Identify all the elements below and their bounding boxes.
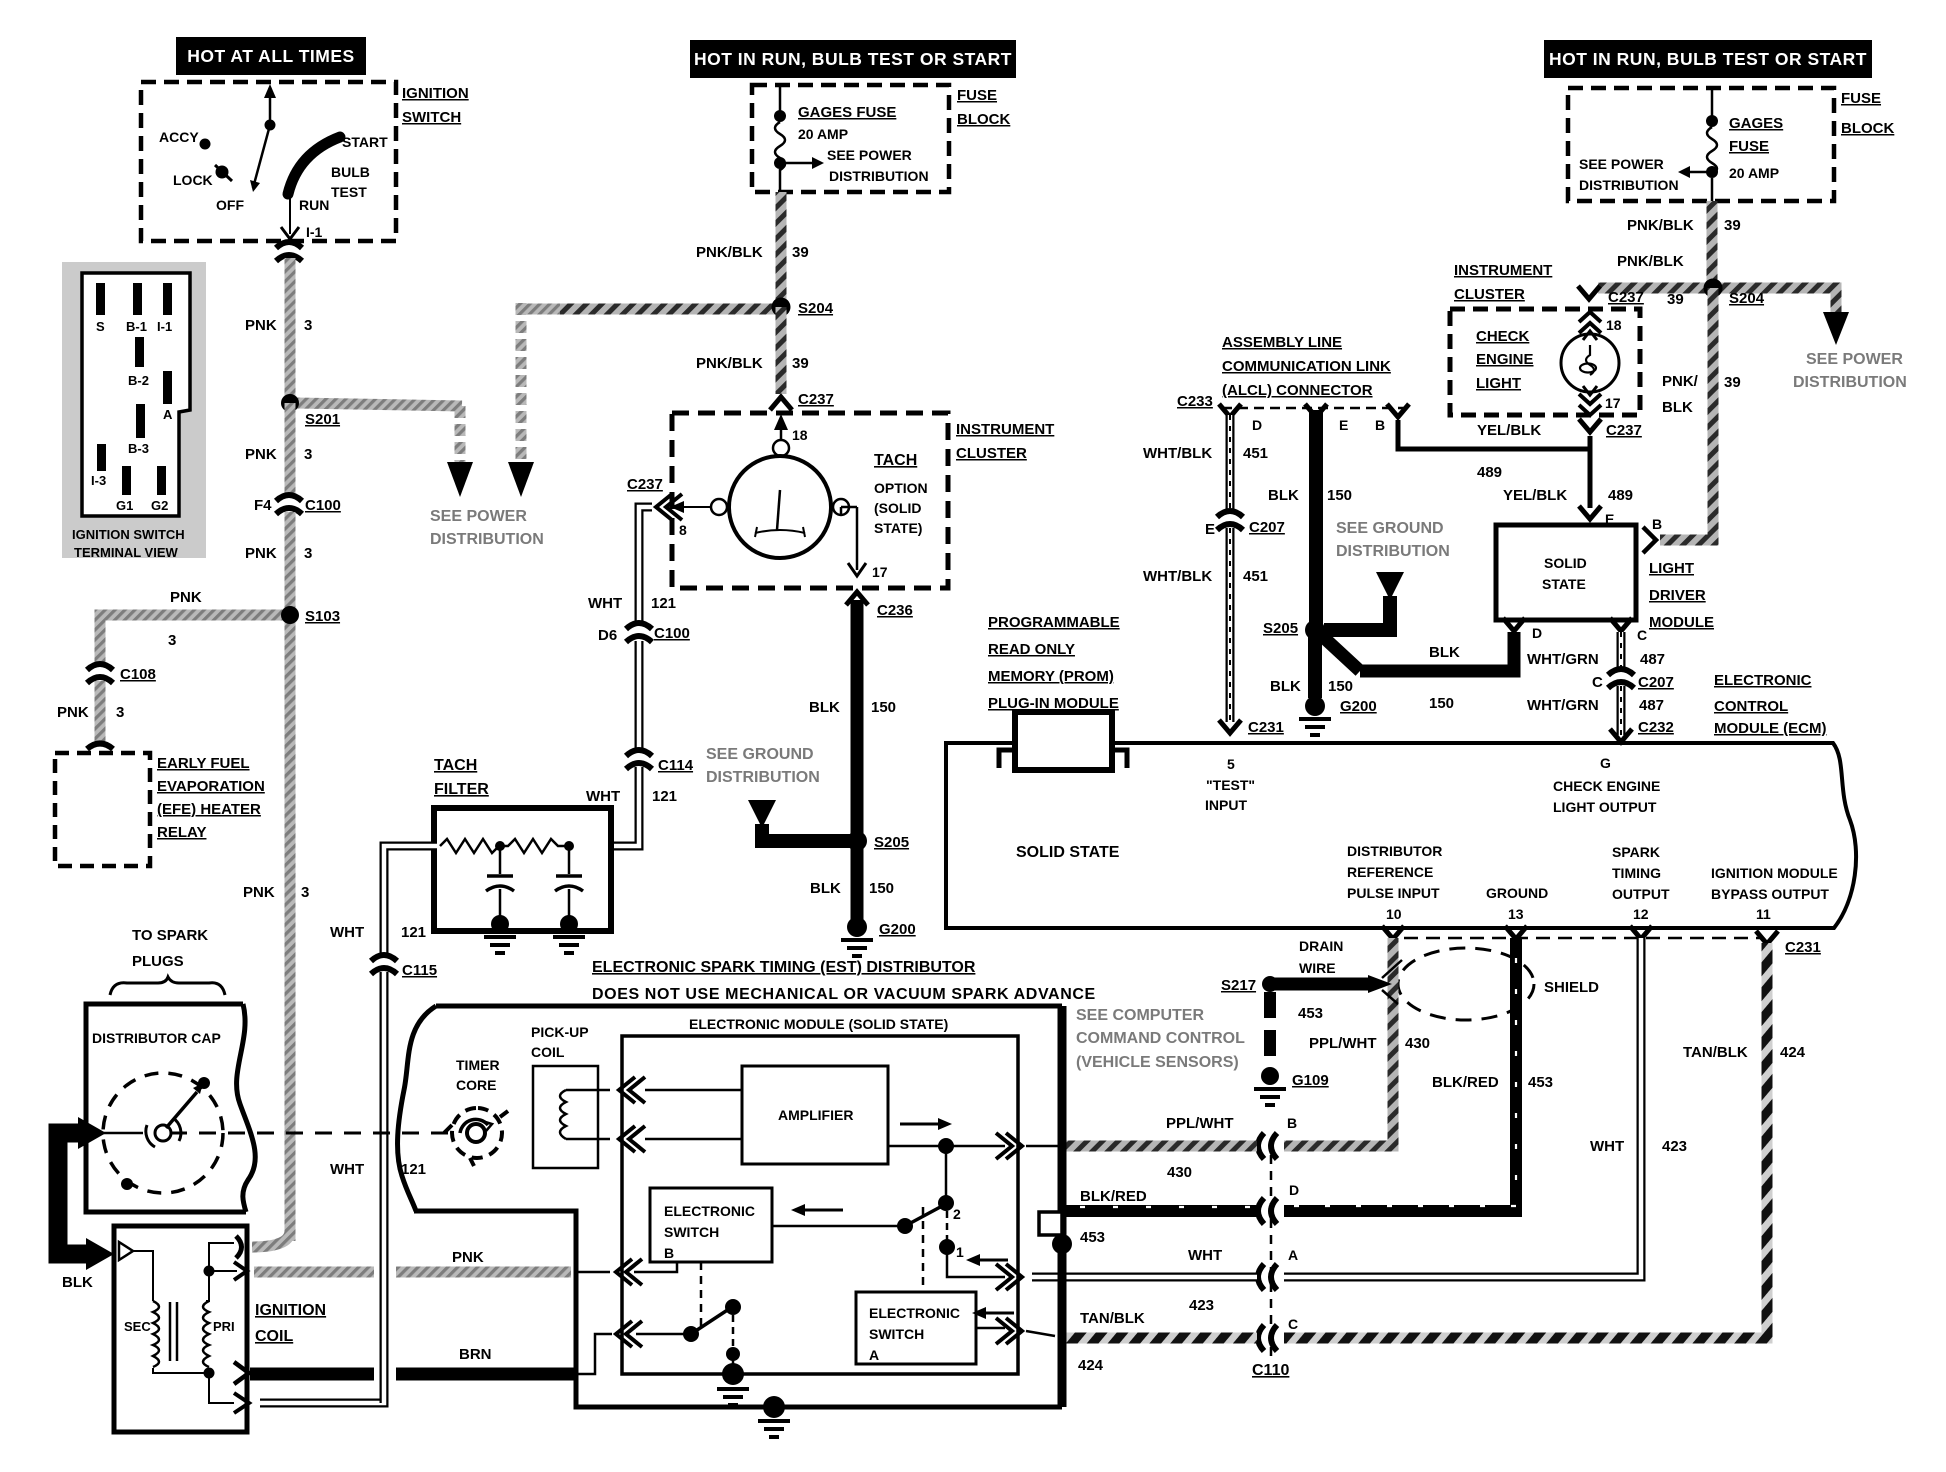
svg-text:1: 1 xyxy=(956,1244,964,1260)
svg-text:3: 3 xyxy=(301,884,309,901)
svg-text:(SOLID: (SOLID xyxy=(874,500,921,516)
ground G200 (right) xyxy=(1305,696,1325,716)
svg-text:DISTRIBUTION: DISTRIBUTION xyxy=(1793,374,1907,391)
svg-text:S204: S204 xyxy=(798,300,834,317)
timer core xyxy=(444,1057,508,1166)
svg-text:SEC: SEC xyxy=(124,1319,151,1334)
svg-text:BLK: BLK xyxy=(1662,399,1693,416)
svg-text:RELAY: RELAY xyxy=(157,824,206,841)
ground G109 xyxy=(1261,1067,1279,1085)
wire S204 branch to see power distribution xyxy=(520,304,560,315)
ECM pin 11 connector C231 xyxy=(1756,931,1778,944)
svg-text:18: 18 xyxy=(792,427,808,443)
svg-text:DISTRIBUTION: DISTRIBUTION xyxy=(430,531,544,548)
svg-text:MODULE: MODULE xyxy=(1649,614,1714,631)
dashed control link to switch A xyxy=(922,1207,925,1292)
svg-text:ELECTRONIC MODULE (SOLID STATE: ELECTRONIC MODULE (SOLID STATE) xyxy=(689,1016,948,1032)
svg-text:C100: C100 xyxy=(654,625,690,642)
ECM label xyxy=(1714,672,1827,737)
svg-text:C237: C237 xyxy=(798,391,834,408)
svg-text:DISTRIBUTION: DISTRIBUTION xyxy=(1579,177,1679,193)
svg-text:C: C xyxy=(1592,674,1603,691)
svg-text:G2: G2 xyxy=(151,498,168,513)
PROM plug-in module xyxy=(988,614,1127,770)
svg-text:20 AMP: 20 AMP xyxy=(1729,165,1779,181)
wire to amplifier top xyxy=(645,1089,742,1092)
ALCL pin D xyxy=(1219,404,1241,417)
wire PNK chevron to switch B xyxy=(634,1262,677,1272)
node S205 xyxy=(847,831,867,851)
wire BLK 150 ALCL pin E down xyxy=(1309,410,1323,624)
svg-text:18: 18 xyxy=(1606,317,1622,333)
ECM pin 13 ground xyxy=(1486,885,1548,922)
svg-text:COMMUNICATION LINK: COMMUNICATION LINK xyxy=(1222,358,1391,375)
svg-text:WHT: WHT xyxy=(330,924,364,941)
fuse block (middle) xyxy=(752,85,1010,192)
ALCL labels xyxy=(1177,334,1391,410)
svg-text:DISTRIBUTION: DISTRIBUTION xyxy=(706,769,820,786)
wire S204 branch left to C237 xyxy=(1598,283,1713,294)
ignition switch box xyxy=(141,82,469,241)
svg-text:10: 10 xyxy=(1386,906,1402,922)
electronic switch A xyxy=(856,1292,976,1364)
wire BRN coil to module xyxy=(250,1334,612,1374)
svg-text:C231: C231 xyxy=(1248,719,1284,736)
wire WHT 121 C100 to C114 xyxy=(586,641,677,805)
svg-text:E: E xyxy=(1339,417,1348,433)
see computer command control xyxy=(1076,1007,1245,1071)
svg-text:150: 150 xyxy=(1327,487,1352,504)
svg-text:451: 451 xyxy=(1243,445,1268,462)
electronic switch B xyxy=(650,1188,772,1262)
svg-text:PNK: PNK xyxy=(452,1249,484,1266)
fuse block (right) xyxy=(1568,88,1894,201)
svg-text:IGNITION SWITCH: IGNITION SWITCH xyxy=(72,527,185,542)
shield dashed boundary under ECM xyxy=(1404,937,1760,940)
wire PNK coil to module xyxy=(254,1249,610,1272)
svg-text:WHT: WHT xyxy=(1590,1138,1624,1155)
connector C232 into ECM xyxy=(1610,729,1632,742)
svg-text:STATE: STATE xyxy=(1542,576,1586,592)
EST distributor title xyxy=(592,959,1096,1003)
svg-text:SEE POWER: SEE POWER xyxy=(1806,351,1903,368)
svg-text:C237: C237 xyxy=(1608,289,1644,306)
switch contact 1 xyxy=(939,1211,964,1260)
svg-text:WHT/BLK: WHT/BLK xyxy=(1143,445,1212,462)
tach pin 17 xyxy=(841,507,888,580)
svg-text:D: D xyxy=(1289,1182,1299,1198)
C110 pin A xyxy=(1258,1264,1277,1290)
svg-text:PICK-UP: PICK-UP xyxy=(531,1024,589,1040)
ALCL connector dashed top xyxy=(1222,407,1406,410)
svg-text:FUSE: FUSE xyxy=(1729,138,1769,155)
svg-text:WHT/BLK: WHT/BLK xyxy=(1143,568,1212,585)
svg-text:WIRE: WIRE xyxy=(1299,960,1336,976)
wire BLK 150 pin D to S205 xyxy=(1360,632,1514,671)
svg-text:487: 487 xyxy=(1640,651,1665,668)
svg-text:STATE): STATE) xyxy=(874,520,922,536)
svg-text:PNK: PNK xyxy=(170,589,202,606)
svg-text:DRAIN: DRAIN xyxy=(1299,938,1343,954)
svg-text:BLK: BLK xyxy=(1429,644,1460,661)
svg-text:TACH: TACH xyxy=(434,757,477,774)
pin C of light driver module xyxy=(1610,618,1632,631)
svg-text:FILTER: FILTER xyxy=(434,781,489,798)
ECM pin 13 connector xyxy=(1505,926,1527,939)
pin D of light driver module xyxy=(1503,618,1525,631)
svg-text:C: C xyxy=(1288,1316,1298,1332)
svg-text:SHIELD: SHIELD xyxy=(1544,979,1599,996)
svg-text:TIMING: TIMING xyxy=(1612,865,1661,881)
wire WHT C115 to ignition coil xyxy=(260,972,426,1403)
svg-text:EVAPORATION: EVAPORATION xyxy=(157,778,265,795)
svg-text:453: 453 xyxy=(1080,1229,1105,1246)
svg-text:GAGES FUSE: GAGES FUSE xyxy=(798,104,896,121)
electronic module inner box xyxy=(622,1016,1018,1374)
svg-text:PNK: PNK xyxy=(245,317,277,334)
wire BLK/RED 453 pin 13 down and left xyxy=(1284,938,1516,1211)
svg-text:5: 5 xyxy=(1227,756,1235,772)
svg-text:G200: G200 xyxy=(1340,698,1377,715)
module output chevrons TAN/BLK row xyxy=(996,1318,1022,1344)
ignition switch contacts xyxy=(159,84,388,240)
svg-text:B-2: B-2 xyxy=(128,373,149,388)
svg-text:PNK: PNK xyxy=(245,446,277,463)
node S205 (right) xyxy=(1305,620,1325,640)
svg-text:453: 453 xyxy=(1298,1005,1323,1022)
resistor xyxy=(440,839,500,853)
svg-text:430: 430 xyxy=(1167,1164,1192,1181)
linkage dashed line cap to timer core xyxy=(170,1132,448,1135)
svg-text:3: 3 xyxy=(168,632,176,649)
ECM pin 10 connector xyxy=(1382,926,1404,939)
svg-text:13: 13 xyxy=(1508,906,1524,922)
svg-text:DISTRIBUTION: DISTRIBUTION xyxy=(1336,543,1450,560)
svg-text:I-3: I-3 xyxy=(91,473,106,488)
wire PNK 3 S103 down to ignition coil xyxy=(285,615,296,1241)
svg-text:ELECTRONIC: ELECTRONIC xyxy=(869,1305,960,1321)
gages fuse 20A (middle) xyxy=(774,85,929,192)
svg-text:39: 39 xyxy=(792,355,809,372)
dashed control link switch B xyxy=(700,1262,703,1330)
svg-text:3: 3 xyxy=(304,545,312,562)
svg-text:121: 121 xyxy=(401,924,426,941)
ECM pin 10 distributor reference pulse input xyxy=(1347,843,1442,922)
svg-text:39: 39 xyxy=(1724,374,1741,391)
svg-text:BLK: BLK xyxy=(62,1274,93,1291)
svg-text:BRN: BRN xyxy=(459,1346,492,1363)
svg-text:WHT: WHT xyxy=(586,788,620,805)
svg-text:C233: C233 xyxy=(1177,393,1213,410)
svg-text:DOES NOT USE MECHANICAL OR VAC: DOES NOT USE MECHANICAL OR VACUUM SPARK … xyxy=(592,986,1096,1003)
svg-text:17: 17 xyxy=(1605,395,1621,411)
svg-text:TIMER: TIMER xyxy=(456,1057,500,1073)
svg-text:C110: C110 xyxy=(1252,1362,1289,1379)
wire PNK/BLK 39 S204 down to light driver module pin B xyxy=(1660,288,1713,540)
svg-text:C237: C237 xyxy=(627,476,663,493)
wire BLK/RED 453 to distributor xyxy=(1062,1205,1257,1217)
C110 pin C xyxy=(1258,1325,1277,1351)
svg-text:BLK: BLK xyxy=(1270,678,1301,695)
svg-text:LOCK: LOCK xyxy=(173,172,213,188)
connector C108 xyxy=(87,664,113,683)
svg-text:ELECTRONIC: ELECTRONIC xyxy=(664,1203,755,1219)
svg-text:ELECTRONIC SPARK TIMING (EST): ELECTRONIC SPARK TIMING (EST) DISTRIBUTO… xyxy=(592,959,976,976)
svg-text:DISTRIBUTION: DISTRIBUTION xyxy=(829,168,929,184)
wire WHT 423 pin 12 down and left xyxy=(1284,938,1687,1277)
svg-text:CLUSTER: CLUSTER xyxy=(956,445,1027,462)
svg-text:OFF: OFF xyxy=(216,197,244,213)
svg-text:IGNITION: IGNITION xyxy=(255,1302,326,1319)
wire WHT filter to C115 xyxy=(330,846,437,956)
svg-text:424: 424 xyxy=(1078,1357,1104,1374)
wire TAN/BLK 424 to distributor xyxy=(1062,1333,1257,1344)
wire BLK 150 C236 to S205 xyxy=(851,600,864,836)
ECM pin 12 connector xyxy=(1630,926,1652,939)
svg-text:OPTION: OPTION xyxy=(874,480,928,496)
svg-text:C237: C237 xyxy=(1606,422,1642,439)
svg-text:C108: C108 xyxy=(120,666,156,683)
svg-text:451: 451 xyxy=(1243,568,1268,585)
svg-text:SOLID STATE: SOLID STATE xyxy=(1016,844,1120,861)
svg-text:LIGHT OUTPUT: LIGHT OUTPUT xyxy=(1553,799,1657,815)
wire PNK 3 S103 branch left xyxy=(100,615,290,666)
svg-text:(VEHICLE SENSORS): (VEHICLE SENSORS) xyxy=(1076,1054,1239,1071)
svg-text:423: 423 xyxy=(1662,1138,1687,1155)
svg-text:B: B xyxy=(664,1245,674,1261)
connector C237 below bulb xyxy=(1579,419,1601,432)
see ground distribution (right) xyxy=(1324,520,1450,630)
svg-text:EARLY FUEL: EARLY FUEL xyxy=(157,755,250,772)
node S201 xyxy=(281,394,299,412)
svg-text:S204: S204 xyxy=(1729,290,1765,307)
svg-text:D6: D6 xyxy=(598,627,617,644)
svg-text:12: 12 xyxy=(1633,906,1649,922)
svg-text:150: 150 xyxy=(871,699,896,716)
svg-text:PROGRAMMABLE: PROGRAMMABLE xyxy=(988,614,1120,631)
svg-text:150: 150 xyxy=(1328,678,1353,695)
ignition switch terminal view xyxy=(62,262,206,560)
lower switch xyxy=(636,1299,741,1370)
svg-text:BLK: BLK xyxy=(1268,487,1299,504)
svg-text:SEE POWER: SEE POWER xyxy=(1579,156,1664,172)
svg-text:INPUT: INPUT xyxy=(1205,797,1247,813)
wire BLK 150 S205 to G200 xyxy=(851,841,864,920)
svg-text:G: G xyxy=(1600,755,1611,771)
svg-text:CORE: CORE xyxy=(456,1077,496,1093)
svg-text:TEST: TEST xyxy=(331,184,367,200)
svg-text:HOT IN RUN, BULB TEST OR START: HOT IN RUN, BULB TEST OR START xyxy=(694,49,1012,69)
svg-text:SWITCH: SWITCH xyxy=(869,1326,924,1342)
svg-text:GROUND: GROUND xyxy=(1486,885,1548,901)
svg-text:150: 150 xyxy=(869,880,894,897)
svg-text:S: S xyxy=(96,319,105,334)
svg-text:3: 3 xyxy=(304,446,312,463)
banner HOT AT ALL TIMES xyxy=(176,37,366,75)
svg-text:SWITCH: SWITCH xyxy=(402,109,461,126)
svg-text:ASSEMBLY LINE: ASSEMBLY LINE xyxy=(1222,334,1342,351)
wire PNK/BLK 39 fuse to S204 xyxy=(776,192,787,302)
wire PNK/BLK 39 fuse to S204 right xyxy=(1707,201,1718,282)
svg-text:WHT: WHT xyxy=(330,1161,364,1178)
svg-text:READ ONLY: READ ONLY xyxy=(988,641,1075,658)
connector C100 pin F4 xyxy=(276,495,302,514)
svg-text:TAN/BLK: TAN/BLK xyxy=(1080,1310,1145,1327)
svg-text:HOT AT ALL TIMES: HOT AT ALL TIMES xyxy=(187,46,354,66)
gages fuse 20A (right) xyxy=(1579,88,1783,201)
wire PNK 3 C108 to EFE relay xyxy=(95,681,106,744)
svg-text:PNK/BLK: PNK/BLK xyxy=(696,244,763,261)
svg-text:2: 2 xyxy=(953,1206,961,1222)
svg-text:B: B xyxy=(1652,516,1662,532)
banner HOT IN RUN, BULB TEST OR START (right) xyxy=(1544,40,1872,78)
svg-text:S103: S103 xyxy=(305,608,340,625)
svg-text:20 AMP: 20 AMP xyxy=(798,126,848,142)
svg-text:AMPLIFIER: AMPLIFIER xyxy=(778,1107,853,1123)
shield ellipse xyxy=(1398,948,1534,1020)
wire PNK/BLK 39 S204 to C237 xyxy=(776,307,787,394)
ECM pin 5 test input xyxy=(1205,756,1255,813)
wire WHT 121 redraw over crossings xyxy=(380,1250,389,1403)
svg-text:121: 121 xyxy=(651,595,676,612)
light driver module xyxy=(1496,525,1714,631)
svg-text:ACCY: ACCY xyxy=(159,129,199,145)
svg-text:D: D xyxy=(1252,417,1262,433)
ground G200 xyxy=(847,917,867,937)
svg-text:D: D xyxy=(1532,625,1542,641)
svg-text:CHECK: CHECK xyxy=(1476,328,1530,345)
connector C115 xyxy=(371,955,397,974)
svg-text:PNK: PNK xyxy=(243,884,275,901)
svg-text:YEL/BLK: YEL/BLK xyxy=(1477,422,1541,439)
drain wire S217 xyxy=(1221,938,1402,1066)
svg-text:PRI: PRI xyxy=(213,1319,235,1334)
svg-text:453: 453 xyxy=(1528,1074,1553,1091)
svg-text:C231: C231 xyxy=(1785,939,1821,956)
svg-text:F4: F4 xyxy=(254,497,272,514)
svg-text:DISTRIBUTOR CAP: DISTRIBUTOR CAP xyxy=(92,1030,221,1046)
BLK wire to coil xyxy=(58,1117,114,1291)
svg-text:489: 489 xyxy=(1477,464,1502,481)
svg-text:CONTROL: CONTROL xyxy=(1714,698,1788,715)
ECM pin G check engine light output xyxy=(1553,755,1660,815)
svg-text:OUTPUT: OUTPUT xyxy=(1612,886,1670,902)
svg-text:BLK/RED: BLK/RED xyxy=(1432,1074,1499,1091)
wire PPL/WHT 430 pin 10 down and left xyxy=(1284,938,1393,1146)
svg-text:SPARK: SPARK xyxy=(1612,844,1660,860)
connector below ignition switch xyxy=(276,242,302,261)
svg-text:39: 39 xyxy=(1667,291,1684,308)
amplifier output wire xyxy=(888,1118,1005,1154)
wire PNK 3 ignition switch to S201 xyxy=(285,258,296,401)
pin 18 of bulb xyxy=(1579,312,1622,333)
EFE heater relay xyxy=(55,753,265,866)
svg-text:SEE COMPUTER: SEE COMPUTER xyxy=(1076,1007,1204,1024)
svg-text:START: START xyxy=(342,134,388,150)
wire PNK 3 S201 to C100 xyxy=(285,403,296,498)
connector C231 into ECM test input xyxy=(1219,720,1241,733)
svg-text:G200: G200 xyxy=(879,921,916,938)
wire to amplifier bottom xyxy=(645,1138,742,1141)
wire WHT/GRN 487 pin C to C207 xyxy=(1527,632,1665,672)
svg-text:TO SPARK: TO SPARK xyxy=(132,927,208,944)
instrument cluster (tach) box xyxy=(672,413,1054,588)
svg-text:G1: G1 xyxy=(116,498,133,513)
ECM pin 11 ignition module bypass output xyxy=(1711,865,1838,922)
node S204 right xyxy=(1704,279,1723,298)
ground under right cap xyxy=(553,937,585,953)
distributor outer box xyxy=(398,1006,1062,1407)
svg-text:I-1: I-1 xyxy=(306,224,323,240)
svg-text:TACH: TACH xyxy=(874,452,917,469)
tach filter xyxy=(434,757,611,953)
svg-text:LIGHT: LIGHT xyxy=(1649,560,1694,577)
pin 17 of bulb xyxy=(1579,394,1621,415)
svg-text:BULB: BULB xyxy=(331,164,370,180)
svg-text:TAN/BLK: TAN/BLK xyxy=(1683,1044,1748,1061)
svg-text:S205: S205 xyxy=(1263,620,1298,637)
svg-text:FUSE: FUSE xyxy=(1841,90,1881,107)
svg-text:39: 39 xyxy=(792,244,809,261)
svg-text:C232: C232 xyxy=(1638,719,1674,736)
wire S204 branch right to see power distribution xyxy=(1713,288,1836,312)
svg-text:B: B xyxy=(1375,417,1385,433)
svg-text:PPL/WHT: PPL/WHT xyxy=(1166,1115,1234,1132)
svg-text:COIL: COIL xyxy=(531,1044,565,1060)
amplifier xyxy=(742,1066,888,1164)
wire WHT 423 to distributor xyxy=(1032,1247,1257,1314)
svg-text:PNK/: PNK/ xyxy=(1662,373,1699,390)
svg-text:A: A xyxy=(869,1347,879,1363)
svg-text:MEMORY (PROM): MEMORY (PROM) xyxy=(988,668,1114,685)
svg-text:S201: S201 xyxy=(305,411,340,428)
svg-text:ENGINE: ENGINE xyxy=(1476,351,1534,368)
svg-text:CHECK ENGINE: CHECK ENGINE xyxy=(1553,778,1660,794)
ground under left cap xyxy=(484,937,516,953)
wire YEL/BLK 489 from ALCL pin B to C237 xyxy=(1398,420,1590,449)
svg-text:MODULE (ECM): MODULE (ECM) xyxy=(1714,720,1827,737)
svg-text:B-1: B-1 xyxy=(126,319,147,334)
svg-text:WHT: WHT xyxy=(588,595,622,612)
pick-up coil connector top xyxy=(619,1077,645,1103)
svg-text:ELECTRONIC: ELECTRONIC xyxy=(1714,672,1812,689)
svg-text:E: E xyxy=(1205,521,1215,538)
svg-text:PNK: PNK xyxy=(245,545,277,562)
svg-text:17: 17 xyxy=(872,564,888,580)
switch B output wire and blade xyxy=(772,1204,944,1234)
svg-text:YEL/BLK: YEL/BLK xyxy=(1503,487,1567,504)
pick-up coil xyxy=(531,1024,610,1168)
ground inside module xyxy=(722,1363,744,1385)
svg-text:PNK/BLK: PNK/BLK xyxy=(1627,217,1694,234)
svg-text:(EFE) HEATER: (EFE) HEATER xyxy=(157,801,261,818)
svg-text:487: 487 xyxy=(1639,697,1664,714)
svg-text:424: 424 xyxy=(1780,1044,1806,1061)
svg-text:RUN: RUN xyxy=(299,197,329,213)
svg-text:C100: C100 xyxy=(305,497,341,514)
svg-text:CLUSTER: CLUSTER xyxy=(1454,286,1525,303)
connector C237 tach pin8 side wire WHT xyxy=(588,507,676,626)
see ground distribution (left) xyxy=(706,746,852,841)
svg-text:COMMAND CONTROL: COMMAND CONTROL xyxy=(1076,1030,1245,1047)
wire WHT/GRN 487 C207 to C232 xyxy=(1527,686,1674,736)
svg-text:WHT/GRN: WHT/GRN xyxy=(1527,651,1599,668)
svg-text:C: C xyxy=(1637,627,1647,643)
svg-text:FUSE: FUSE xyxy=(957,87,997,104)
svg-text:S205: S205 xyxy=(874,834,909,851)
wire WHT/BLK 451 C233 to C207 xyxy=(1143,415,1268,513)
check engine bulb xyxy=(1561,331,1619,395)
